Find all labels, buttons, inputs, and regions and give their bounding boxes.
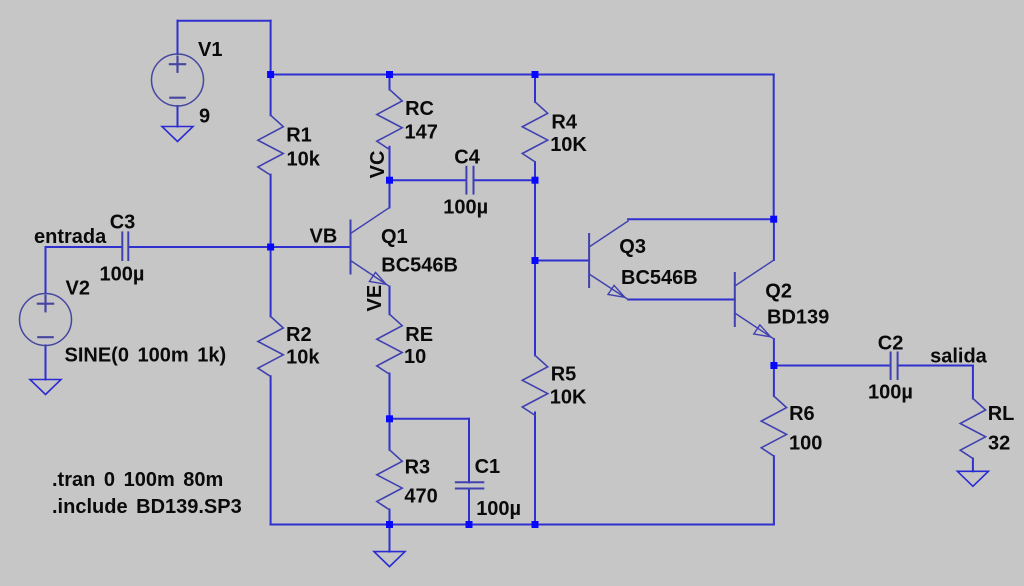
wire right bus down to Q-collector node bbox=[773, 75, 775, 220]
wire R4 bottom lead bbox=[534, 162, 536, 180]
svg-text:RL: RL bbox=[988, 403, 1015, 425]
junction Q3 base node bbox=[532, 257, 539, 264]
svg-text:Q2: Q2 bbox=[765, 281, 792, 303]
svg-text:100µ: 100µ bbox=[100, 263, 145, 285]
resistor R5 bbox=[522, 355, 547, 415]
ground main below R3 bbox=[374, 552, 405, 567]
svg-text:VB: VB bbox=[310, 225, 338, 247]
svg-text:SINE(0 100m 1k): SINE(0 100m 1k) bbox=[65, 345, 227, 367]
wire V1 to top bus horizontal bbox=[178, 20, 271, 22]
svg-text:R5: R5 bbox=[551, 364, 577, 386]
wire C3 right plate to VB node bbox=[130, 246, 271, 248]
svg-text:.include BD139.SP3: .include BD139.SP3 bbox=[52, 496, 242, 518]
wire R6 bottom lead bbox=[773, 456, 775, 524]
capacitor C2 bbox=[891, 353, 898, 380]
junction ground bus at C1 bbox=[466, 521, 473, 528]
resistor R2 bbox=[258, 317, 283, 377]
resistor R1 bbox=[258, 115, 283, 175]
voltage source V2 bbox=[20, 294, 72, 346]
wire RL bottom to ground bbox=[972, 459, 974, 472]
ground below RL bbox=[957, 471, 988, 486]
svg-text:RC: RC bbox=[405, 98, 434, 120]
svg-text:C3: C3 bbox=[110, 211, 136, 233]
wire node to C1 branch bbox=[390, 418, 470, 420]
transistor Q1 bbox=[351, 208, 390, 287]
svg-text:BC546B: BC546B bbox=[621, 267, 698, 289]
svg-text:BC546B: BC546B bbox=[381, 255, 458, 277]
wire R5 bottom lead bbox=[534, 413, 536, 525]
junction C4-R4 node bbox=[532, 177, 539, 184]
wire VB node to Q1 base bbox=[271, 246, 351, 248]
svg-text:100: 100 bbox=[789, 432, 822, 454]
svg-text:RE: RE bbox=[405, 324, 433, 346]
svg-text:10k: 10k bbox=[287, 149, 321, 171]
resistor R6 bbox=[761, 396, 786, 456]
wire Q3 emitter to Q2 base bbox=[628, 299, 735, 301]
svg-text:salida: salida bbox=[930, 346, 988, 368]
wire salida down to RL bbox=[972, 366, 974, 399]
wire R3 bottom lead bbox=[389, 510, 391, 525]
wire C1 top lead bbox=[468, 419, 470, 483]
svg-text:Q3: Q3 bbox=[619, 236, 646, 258]
svg-text:C4: C4 bbox=[454, 147, 480, 169]
junction ground bus at R3 bbox=[386, 521, 393, 528]
junction ground bus at R5 bbox=[532, 521, 539, 528]
wire Q1 collector up to VC node bbox=[389, 180, 391, 207]
wire RE bottom lead to node bbox=[389, 374, 391, 419]
svg-text:100µ: 100µ bbox=[476, 498, 521, 520]
svg-text:C1: C1 bbox=[475, 456, 501, 478]
svg-text:R2: R2 bbox=[286, 324, 312, 346]
wire VC node to C4 left plate bbox=[390, 179, 465, 181]
svg-text:Q1: Q1 bbox=[381, 226, 408, 248]
capacitor C3 bbox=[122, 232, 128, 260]
svg-text:VE: VE bbox=[364, 285, 386, 312]
svg-text:147: 147 bbox=[405, 121, 438, 143]
resistor R4 bbox=[522, 102, 547, 162]
wire top supply bus bbox=[271, 74, 774, 76]
wire C1 bottom lead bbox=[468, 489, 470, 525]
voltage source V1 bbox=[152, 54, 204, 106]
svg-text:V1: V1 bbox=[198, 39, 222, 61]
capacitor C4 bbox=[466, 167, 473, 194]
wire R6 top lead bbox=[773, 366, 775, 397]
wire RC top lead bbox=[389, 75, 391, 90]
junction VC node bbox=[386, 177, 393, 184]
ground below V1 bbox=[162, 127, 193, 142]
junction top bus at RC bbox=[386, 71, 393, 78]
wire Q3 base node down to R5 bbox=[534, 261, 536, 356]
wire down to top bus bbox=[270, 21, 272, 75]
junction VB node bbox=[267, 244, 274, 251]
wire R2 top lead bbox=[270, 247, 272, 317]
capacitor C1 bbox=[456, 482, 483, 488]
transistor Q3 bbox=[589, 221, 628, 300]
svg-text:9: 9 bbox=[199, 105, 210, 127]
wire ground stub below bus bbox=[389, 525, 391, 552]
wire Q1 emitter down to RE bbox=[389, 287, 391, 315]
resistor RC bbox=[377, 90, 402, 150]
svg-text:32: 32 bbox=[988, 432, 1010, 454]
resistor R3 bbox=[377, 450, 402, 510]
svg-text:R1: R1 bbox=[286, 125, 312, 147]
wire C2 right plate to salida corner bbox=[899, 365, 973, 367]
svg-text:470: 470 bbox=[404, 486, 437, 508]
junction RE-R3-C1 node bbox=[386, 415, 393, 422]
wire entrada to C3 left plate bbox=[46, 246, 122, 248]
junction output node bbox=[770, 362, 777, 369]
wire bottom ground bus bbox=[271, 524, 774, 526]
ground below V2 bbox=[30, 380, 61, 395]
junction collector node right bbox=[770, 216, 777, 223]
wire R2 bottom lead to ground bus bbox=[270, 376, 272, 524]
wire RC bottom lead to VC node bbox=[389, 147, 391, 180]
svg-text:10k: 10k bbox=[286, 346, 320, 368]
wire V1 bottom to ground bbox=[177, 106, 179, 127]
wire R3 top lead bbox=[389, 419, 391, 450]
wire Q2 emitter down to output node bbox=[773, 339, 775, 366]
wire V2 bottom to ground bbox=[45, 345, 47, 379]
svg-text:.tran 0 100m 80m: .tran 0 100m 80m bbox=[52, 469, 223, 491]
svg-text:entrada: entrada bbox=[34, 226, 107, 248]
resistor RE bbox=[377, 314, 402, 374]
svg-text:R3: R3 bbox=[405, 457, 431, 479]
junction top bus at R4 bbox=[532, 71, 539, 78]
wire C4 node down to Q3 base node bbox=[534, 180, 536, 260]
wire R4 top lead bbox=[534, 75, 536, 102]
resistor RL bbox=[960, 399, 985, 459]
wire R1 bottom lead to VB node bbox=[270, 175, 272, 247]
wire R1 top lead bbox=[270, 75, 272, 116]
svg-text:10K: 10K bbox=[550, 386, 587, 408]
svg-text:C2: C2 bbox=[878, 333, 904, 355]
svg-text:100µ: 100µ bbox=[868, 382, 913, 404]
svg-text:V2: V2 bbox=[66, 277, 90, 299]
wire V1 top lead bbox=[177, 21, 179, 54]
svg-text:BD139: BD139 bbox=[767, 306, 829, 328]
svg-text:10: 10 bbox=[404, 346, 426, 368]
wire Q3 base to node bbox=[535, 260, 589, 262]
svg-text:100µ: 100µ bbox=[443, 196, 488, 218]
wire C4 right plate to R4 node bbox=[474, 179, 535, 181]
svg-text:R4: R4 bbox=[551, 112, 577, 134]
transistor Q2 bbox=[735, 260, 774, 339]
wire Q2 collector up to node bbox=[773, 219, 775, 260]
wire output node to C2 left plate bbox=[774, 365, 890, 367]
junction top bus at R1 bbox=[267, 71, 274, 78]
svg-text:VC: VC bbox=[367, 151, 389, 179]
svg-text:10K: 10K bbox=[550, 134, 587, 156]
svg-text:R6: R6 bbox=[789, 403, 815, 425]
wire Q3 collector horizontal bbox=[628, 218, 774, 220]
wire entrada down to V2 bbox=[45, 247, 47, 294]
